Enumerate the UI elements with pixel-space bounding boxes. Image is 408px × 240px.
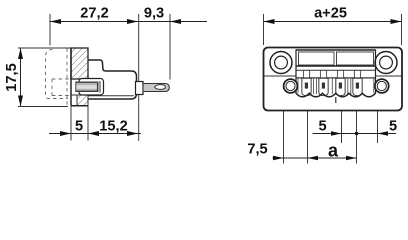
small hole left [284, 79, 298, 93]
lower bottom dim line (7,5 / a) [273, 157, 357, 159]
extension x=71 [70, 106, 72, 141]
extension lines a+25 [263, 14, 265, 45]
arrow at 71 pointing right [60, 131, 71, 136]
arrow for 7,5 dim [273, 156, 284, 161]
body inner bottom line [88, 95, 134, 97]
flange left edge [70, 48, 72, 106]
pin slot (oval) [155, 85, 166, 90]
flange lower-left face [71, 95, 77, 106]
svg-text:27,2: 27,2 [80, 5, 108, 21]
divider tail [335, 97, 337, 103]
pin tabs [303, 70, 360, 77]
svg-text:9,3: 9,3 [144, 5, 164, 21]
flange mid lines [264, 75, 297, 77]
arrow at 138 pointing right [127, 131, 138, 136]
svg-text:a+25: a+25 [314, 5, 347, 21]
big screw hole right [375, 52, 397, 74]
screw window rounded rect [79, 79, 104, 96]
window inner right line [99, 81, 101, 93]
arrow at 88 pointing left [88, 131, 99, 136]
small hole right [375, 79, 389, 93]
extension line x=170 (right of 9,3) [169, 14, 171, 80]
extension line x=138.7 (27,2 / 9,3 boundary, long) [138, 14, 140, 141]
housing panels [299, 52, 335, 65]
arrow left of a dim [308, 156, 319, 161]
arrow left of 27,2 [50, 19, 61, 24]
extension line y=106.5 [18, 106, 68, 108]
pocket walls [298, 78, 374, 94]
svg-text:17,5: 17,5 [4, 63, 20, 91]
housing horizontal lines [296, 65, 376, 67]
dimension line a+25 [264, 21, 402, 23]
upper bottom dim line (5 ... 5) [313, 133, 397, 135]
svg-text:5: 5 [75, 119, 83, 135]
flange hatched patch (lower) [77, 95, 88, 106]
svg-text:5: 5 [318, 119, 326, 135]
collar between body and pin [136, 82, 144, 95]
pin (plug contact) [143, 84, 169, 92]
arrow left of a+25 [264, 19, 275, 24]
arrow for left 5 dim [331, 131, 342, 136]
connector body outline [88, 60, 137, 99]
arrow right of a dim [346, 156, 357, 161]
flange bottom edge [71, 105, 88, 107]
dimension 17,5 vertical [20, 48, 22, 107]
clamping screw (gray) [76, 82, 99, 93]
extension x=88 [87, 99, 89, 141]
lower extension lines (drawn first, circles cover) [283, 77, 285, 164]
svg-text:15,2: 15,2 [99, 119, 127, 135]
svg-text:5: 5 [389, 119, 397, 135]
svg-text:a: a [328, 140, 339, 160]
arrow right of 27,2 [127, 19, 138, 24]
flange outer rounded rect [264, 48, 403, 111]
dashed panel outline [46, 49, 72, 106]
arrow right of 9,3 [170, 19, 181, 24]
housing outline [296, 49, 376, 51]
dimension line top left view [50, 21, 207, 23]
wavy bottom edge [296, 93, 376, 97]
screws [302, 78, 362, 95]
extension line x=50 (left of 27,2) [49, 14, 51, 46]
screw slots [305, 83, 359, 89]
svg-text:7,5: 7,5 [247, 141, 267, 157]
big screw hole left [270, 52, 292, 74]
extension line y=48 [18, 47, 71, 49]
flange hatched cross-section (upper) [71, 48, 88, 79]
dimension dot at shared boundary [355, 132, 358, 135]
bottom dimension line (5 / 15,2) [49, 133, 141, 135]
arrow right of a+25 [391, 19, 402, 24]
arrow for right 5 dim [378, 131, 389, 136]
